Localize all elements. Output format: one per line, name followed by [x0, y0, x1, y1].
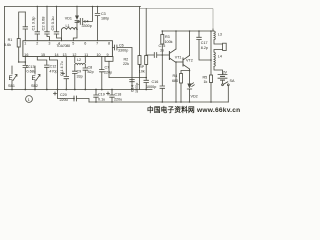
svg-text:C1 3.3p: C1 3.3p	[31, 16, 36, 31]
svg-text:3: 3	[48, 42, 50, 46]
svg-text:C17: C17	[201, 41, 208, 45]
svg-text:8.2p: 8.2p	[201, 46, 208, 50]
svg-text:3300p: 3300p	[118, 49, 128, 53]
capacitor C17	[197, 31, 211, 60]
wire top supply rail	[5, 6, 141, 8]
svg-text:C16: C16	[152, 80, 159, 84]
svg-text:10k: 10k	[139, 70, 145, 74]
wire right vertical from top rail	[212, 9, 214, 30]
pushbutton SB2	[34, 66, 36, 90]
transistor VT1	[168, 52, 170, 60]
capacitor C4	[77, 7, 93, 25]
svg-text:470p: 470p	[49, 69, 57, 73]
wire bottom ground rail left	[5, 89, 153, 91]
svg-text:VD1: VD1	[65, 17, 72, 21]
svg-text:11: 11	[84, 53, 88, 57]
svg-text:R3: R3	[165, 35, 170, 39]
capacitor C14	[130, 80, 135, 82]
wire top rail faint right segment	[140, 8, 214, 10]
svg-text:中国电子资料网 www.66kv.cn: 中国电子资料网 www.66kv.cn	[147, 105, 240, 114]
svg-text:1000p: 1000p	[135, 83, 139, 93]
wire pin9 to audio bus	[108, 61, 110, 77]
svg-text:C12: C12	[50, 65, 57, 69]
svg-text:4: 4	[58, 42, 60, 46]
svg-text:R2: R2	[124, 58, 129, 62]
svg-text:L2: L2	[77, 58, 81, 62]
svg-text:100k: 100k	[165, 40, 173, 44]
svg-text:R5: R5	[203, 76, 208, 80]
IC U1 TDA7088 box	[23, 41, 113, 57]
svg-text:3300p: 3300p	[82, 24, 92, 28]
svg-text:VD2: VD2	[191, 95, 198, 99]
svg-text:RP: RP	[139, 65, 145, 69]
svg-text:C6: C6	[119, 44, 124, 48]
resistor R3	[161, 31, 163, 35]
svg-text:R1: R1	[8, 38, 13, 42]
svg-text:VT1: VT1	[175, 56, 182, 60]
pushbutton SB1	[11, 66, 13, 90]
svg-text:C18: C18	[115, 93, 122, 97]
svg-text:1k: 1k	[204, 80, 208, 84]
svg-text:1: 1	[28, 98, 30, 102]
diode VD1 varactor	[76, 7, 78, 16]
capacitor C5	[54, 7, 61, 41]
earphone B	[223, 43, 227, 50]
plus marks	[54, 72, 110, 95]
capacitor C7	[100, 57, 105, 90]
svg-text:SB1: SB1	[8, 84, 15, 88]
svg-text:12: 12	[72, 53, 76, 57]
resistor R1	[19, 12, 26, 62]
svg-text:C20: C20	[60, 93, 67, 97]
svg-text:180p: 180p	[101, 16, 109, 20]
svg-text:220u: 220u	[60, 98, 68, 102]
svg-text:5: 5	[72, 42, 74, 46]
svg-text:C5 0.1u: C5 0.1u	[50, 16, 55, 30]
capacitor C6	[112, 45, 132, 90]
capacitor C13	[23, 57, 28, 90]
svg-text:8: 8	[108, 42, 110, 46]
svg-text:3V: 3V	[223, 71, 228, 75]
resistor R2	[139, 7, 141, 56]
capacitor C3	[95, 7, 100, 41]
capacitor on pin 1	[23, 12, 28, 41]
LED VD2	[187, 84, 191, 89]
wire pin14 column	[49, 57, 57, 90]
svg-text:1000p: 1000p	[146, 85, 156, 89]
svg-text:VT2: VT2	[186, 59, 193, 63]
svg-text:14: 14	[55, 53, 59, 57]
svg-text:C4: C4	[84, 20, 89, 24]
svg-text:82p: 82p	[88, 70, 94, 74]
svg-text:22k: 22k	[123, 62, 129, 66]
resistor R5	[210, 31, 212, 75]
resistor R4	[180, 74, 183, 84]
capacitor C9	[73, 65, 78, 90]
switch SA	[222, 84, 224, 86]
svg-text:7: 7	[96, 42, 98, 46]
svg-text:C19: C19	[98, 93, 105, 97]
transistor VT2	[176, 61, 183, 63]
svg-text:E: E	[32, 75, 36, 82]
svg-text:33p: 33p	[77, 75, 83, 79]
capacitor on R3 column	[160, 55, 165, 102]
wire audio bus y77.5	[109, 77, 146, 79]
svg-text:C3: C3	[101, 12, 106, 16]
capacitor C15	[146, 53, 169, 58]
svg-text:5.6k: 5.6k	[4, 43, 11, 47]
svg-text:10: 10	[97, 53, 101, 57]
svg-text:0.1u: 0.1u	[98, 98, 105, 102]
svg-text:C7: C7	[105, 66, 110, 70]
capacitor C8	[83, 65, 88, 90]
capacitor C18	[110, 90, 115, 103]
svg-text:220p: 220p	[104, 70, 112, 74]
capacitor C11	[64, 57, 69, 90]
svg-text:680: 680	[172, 79, 178, 83]
capacitor C2	[45, 7, 50, 41]
svg-text:C8: C8	[88, 66, 93, 70]
wire left rail	[4, 7, 6, 90]
capacitor C1	[35, 7, 40, 41]
filter box on pin 9	[105, 57, 113, 62]
svg-text:C15: C15	[159, 44, 166, 48]
wire row y62	[19, 61, 26, 63]
svg-text:L4: L4	[218, 55, 222, 59]
inductor L3	[213, 30, 214, 32]
svg-text:C14: C14	[130, 85, 134, 92]
node circle 1	[26, 96, 33, 103]
svg-text:15: 15	[41, 53, 45, 57]
svg-text:0.68u: 0.68u	[27, 69, 36, 73]
wire bottom lower rail	[89, 101, 228, 103]
svg-text:C2 0.68: C2 0.68	[41, 16, 46, 31]
wire collector rail y31	[162, 30, 213, 32]
svg-text:6: 6	[84, 42, 86, 46]
svg-text:SA: SA	[230, 79, 235, 83]
svg-text:C9: C9	[77, 70, 82, 74]
capacitor C16	[144, 78, 149, 90]
svg-text:L3: L3	[218, 33, 222, 37]
potentiometer RP	[145, 9, 147, 56]
inductor L4	[214, 52, 215, 66]
svg-text:220u: 220u	[114, 98, 122, 102]
svg-text:R4: R4	[173, 74, 178, 78]
capacitor C20	[58, 90, 90, 103]
svg-text:2: 2	[36, 42, 38, 46]
svg-text:E: E	[9, 75, 13, 82]
svg-text:SB2: SB2	[31, 84, 38, 88]
svg-text:1: 1	[24, 42, 26, 46]
capacitor C12	[37, 57, 49, 90]
capacitor C19	[94, 90, 99, 103]
